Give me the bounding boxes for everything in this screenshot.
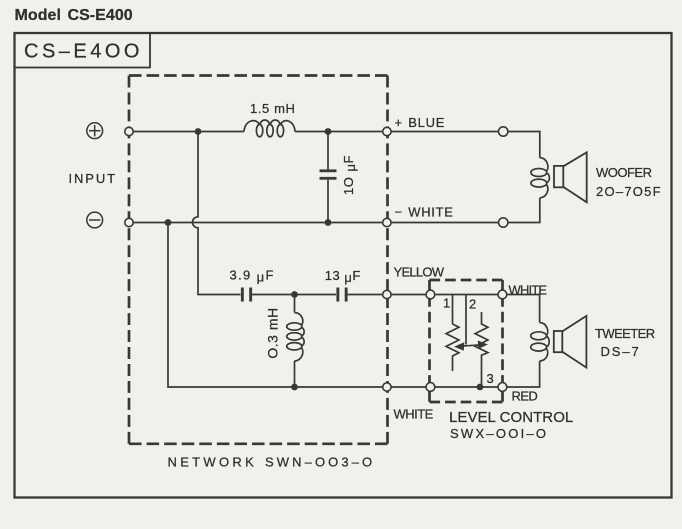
capacitor C3 13 uF [336,288,347,302]
input plus terminal [87,123,103,139]
tweeter speaker symbol [554,316,587,368]
pot resistor R2 [475,312,488,387]
svg-text:SWN–OO3–O: SWN–OO3–O [265,455,375,470]
pot pin 2 lead [465,295,467,345]
open connector circles level control [426,290,507,391]
svg-text:O.3 mH: O.3 mH [265,307,281,358]
svg-text:1: 1 [443,296,450,311]
network box (dashed) [129,76,388,444]
wire: +input row terminal to inductor [129,131,244,133]
svg-text:INPUT: INPUT [69,171,118,186]
svg-text:2: 2 [469,297,476,312]
capacitor C2 3.9 uF [241,288,252,302]
wire: yellow terminal to level control [387,294,431,296]
svg-text:Model CS-E400: Model CS-E400 [15,7,133,24]
svg-text:2O–7O5F: 2O–7O5F [596,184,662,199]
pot pin 1 lead [452,295,454,325]
wire: level control to tweeter bottom [502,361,539,387]
wire: 13uF to yellow terminal [348,294,387,296]
wire: white row to level control [295,386,431,388]
svg-text:3.9 μF: 3.9 μF [230,268,275,285]
level control top wire [430,294,502,296]
svg-text:RED: RED [512,389,538,404]
svg-text:CS–E4OO: CS–E4OO [24,41,143,63]
svg-text:+ BLUE: + BLUE [395,115,446,130]
svg-text:WOOFER: WOOFER [596,165,652,180]
inductor L2 0.3 mH (vertical) [287,295,304,388]
wire: 3.9uF to 13uF [252,294,336,296]
svg-text:WHITE: WHITE [394,407,434,422]
svg-text:13 μF: 13 μF [325,268,361,285]
svg-text:− WHITE: − WHITE [395,205,454,220]
svg-text:NETWORK: NETWORK [168,455,258,470]
wire: vertical branch from + row with hop over - row [193,132,241,295]
svg-text:DS–7: DS–7 [601,344,641,359]
input minus terminal [87,212,103,228]
svg-text:WHITE: WHITE [509,283,548,298]
svg-text:1O μF: 1O μF [341,155,358,195]
svg-text:YELLOW: YELLOW [394,265,445,280]
wire: inductor to +BLUE terminal [295,131,387,133]
wire: -input row [129,222,387,224]
svg-text:3: 3 [487,371,494,386]
wire: -WHITE to woofer [387,198,540,223]
svg-text:1.5 mH: 1.5 mH [250,101,296,116]
svg-text:SWX–OOI–O: SWX–OOI–O [450,426,548,441]
tweeter voice coil [531,323,550,362]
capacitor C1 10uF [320,132,337,223]
open connector circles woofer [499,127,508,227]
wire: vertical branch from - row down to white row [168,223,295,388]
level control bottom wire [430,386,502,388]
wire: level control to tweeter top [502,295,539,323]
pot wiper arrow [456,342,486,350]
inductor L1 1.5 mH [244,120,295,137]
svg-text:TWEETER: TWEETER [595,326,655,341]
junction dots [165,128,484,390]
label box CS-E400 [15,33,151,68]
wire: +BLUE to woofer [387,132,540,158]
pot resistor R1 [446,324,459,371]
woofer speaker symbol [554,152,587,202]
level control box (dashed) [430,280,503,402]
woofer voice coil [531,158,550,198]
svg-text:LEVEL CONTROL: LEVEL CONTROL [449,409,573,426]
open terminals on network box [125,127,391,391]
